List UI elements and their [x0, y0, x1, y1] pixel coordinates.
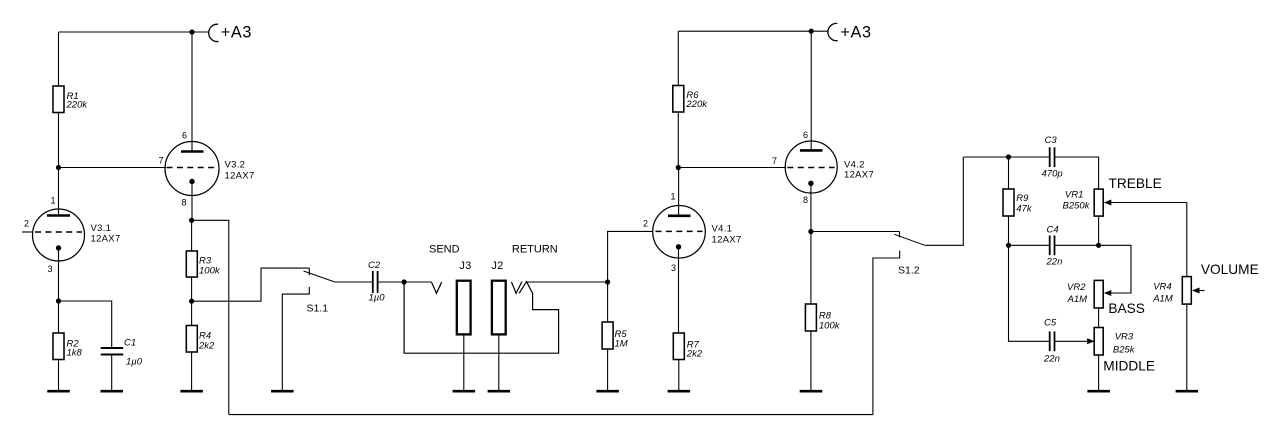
wire RETURN tip to node F — [527, 281, 608, 283]
resistor R8 — [805, 304, 816, 331]
RETURN normalling contact to bypass loop — [404, 282, 558, 354]
svg-text:47k: 47k — [1016, 203, 1033, 214]
wire node F to R5 — [607, 282, 609, 322]
wire VR1 bottom to node L — [1098, 216, 1100, 245]
wire node F to V4.1 grid pin2 — [608, 231, 653, 282]
wire R8 bottom lead — [810, 331, 812, 390]
svg-text:C5: C5 — [1044, 317, 1057, 328]
wire node G to V4.1 plate — [678, 168, 680, 216]
wire C4 to node L — [1055, 244, 1099, 246]
svg-text:J3: J3 — [460, 260, 472, 272]
capacitor C3 — [1042, 135, 1063, 180]
wire C1 bottom lead — [111, 355, 113, 391]
svg-text:6: 6 — [803, 130, 808, 140]
potentiometer VR1 — [1063, 189, 1187, 216]
svg-text:C3: C3 — [1045, 135, 1058, 146]
wire C2 to node E — [378, 281, 405, 283]
wire R6 top lead — [677, 31, 679, 85]
svg-text:B25k: B25k — [1113, 345, 1136, 356]
svg-text:V4.1: V4.1 — [712, 223, 733, 234]
svg-text:J2: J2 — [492, 260, 504, 272]
svg-text:VR4: VR4 — [1153, 281, 1171, 292]
triode V4.1 — [643, 192, 742, 334]
svg-text:VR2: VR2 — [1067, 282, 1086, 293]
svg-text:S1.2: S1.2 — [898, 265, 920, 277]
svg-text:7: 7 — [772, 156, 777, 166]
capacitor C1 — [101, 338, 143, 368]
junction on +A3 rail — [189, 29, 194, 34]
svg-text:VOLUME: VOLUME — [1201, 262, 1259, 277]
wire V3.2 plate lead to +A3 rail — [191, 32, 193, 152]
svg-text:22n: 22n — [1046, 256, 1063, 267]
svg-text:12AX7: 12AX7 — [225, 170, 255, 181]
triode V4.2 — [772, 130, 874, 232]
wire node D to S1.1 top contact — [192, 268, 310, 301]
SECTION: tonestack — [963, 135, 1258, 391]
wire top rail stage1 — [59, 31, 210, 33]
node F junction (RETURN/R5/V4.1 grid) — [605, 279, 610, 284]
wire VR1 wiper to VR4 top — [1186, 203, 1188, 277]
svg-text:B250k: B250k — [1063, 201, 1091, 212]
ground under R8 — [800, 390, 823, 393]
wire R4 bottom lead — [191, 352, 193, 390]
svg-text:8: 8 — [803, 195, 808, 205]
wire V4.2 plate lead to +A3 rail — [810, 31, 812, 150]
svg-text:+A3: +A3 — [840, 24, 871, 42]
svg-text:VR3: VR3 — [1115, 331, 1134, 342]
wire node E to SEND contact — [404, 281, 431, 283]
svg-text:MIDDLE: MIDDLE — [1103, 358, 1155, 373]
potentiometer VR3 — [1094, 328, 1136, 356]
ground under R4 — [180, 390, 203, 393]
SEND tip contact — [431, 282, 441, 293]
ground under R7 — [668, 390, 691, 393]
wire node C to R3 — [191, 220, 193, 251]
wire R6 bottom to node G — [677, 112, 679, 168]
svg-text:100k: 100k — [819, 321, 841, 332]
wire node L to VR2 wiper loop — [1099, 245, 1131, 293]
resistor R7 — [673, 333, 684, 360]
svg-text:2: 2 — [24, 219, 29, 229]
svg-text:VR1: VR1 — [1065, 189, 1083, 200]
svg-text:V3.2: V3.2 — [225, 160, 246, 171]
wire tone stack top rail — [963, 156, 1049, 158]
ground under R5 — [596, 390, 619, 393]
node A junction (R1/V3.1 plate/V3.2 grid) — [56, 165, 61, 170]
capacitor C4 — [1046, 224, 1063, 267]
wire R5 bottom lead — [607, 349, 609, 390]
svg-text:SEND: SEND — [429, 243, 460, 255]
wire bottom bus — [229, 414, 873, 416]
wire node H to R8 — [810, 232, 812, 305]
wire R1 top lead — [58, 32, 60, 86]
resistor R3 — [186, 251, 197, 277]
resistor R5 — [602, 322, 613, 349]
SECTION: stage1 — [22, 24, 309, 415]
node E junction (C2/SEND/bypass) — [402, 279, 407, 284]
potentiometer VR4 — [1152, 277, 1204, 305]
svg-text:6: 6 — [182, 131, 187, 141]
wire J2 sleeve lead — [498, 334, 500, 390]
resistor R4 — [186, 326, 197, 353]
node K junction (R9/C4) — [1006, 243, 1011, 248]
resistor R6 — [673, 86, 684, 113]
node G junction (R6/V4.1 plate/V4.2 grid) — [676, 165, 681, 170]
wire VR2 bottom to VR3 top — [1098, 308, 1100, 328]
svg-text:1: 1 — [51, 196, 56, 206]
node C junction (V3.2 cathode/R3/S1 feed) — [189, 218, 194, 223]
wire C3 to VR1 top — [1055, 157, 1099, 189]
svg-text:C1: C1 — [124, 338, 136, 349]
svg-text:C4: C4 — [1047, 224, 1059, 235]
svg-text:12AX7: 12AX7 — [712, 234, 742, 245]
svg-text:2: 2 — [643, 218, 648, 228]
svg-text:A1M: A1M — [1067, 294, 1088, 305]
svg-text:3: 3 — [671, 263, 676, 273]
svg-text:3: 3 — [48, 264, 53, 274]
wire node G to V4.2 grid pin7 — [678, 167, 786, 169]
wire R2 bottom lead — [58, 360, 60, 391]
svg-text:12AX7: 12AX7 — [844, 169, 874, 180]
svg-text:1k8: 1k8 — [67, 348, 83, 359]
capacitor C2 — [368, 260, 385, 304]
SECTION: middle — [229, 231, 873, 414]
ground under VR3 — [1087, 390, 1110, 393]
wire node K to C4 — [1009, 244, 1050, 246]
svg-text:8: 8 — [182, 198, 187, 208]
ground under C1 — [101, 390, 124, 393]
ground under R2 — [47, 390, 70, 393]
svg-text:100k: 100k — [199, 266, 221, 277]
triode V3.2 — [159, 131, 255, 221]
svg-text:C2: C2 — [368, 260, 381, 271]
wire node C to bottom bus — [192, 220, 229, 414]
svg-text:V3.1: V3.1 — [91, 223, 112, 234]
wire VR3 bottom lead — [1098, 355, 1100, 390]
node D junction (R3/R4/S1.1 feed) — [189, 299, 194, 304]
wire R7 bottom lead — [678, 360, 680, 391]
svg-text:1M: 1M — [615, 339, 628, 350]
svg-text:1µ0: 1µ0 — [369, 293, 386, 304]
ground under J3 — [453, 390, 476, 393]
SECTION: stage2 — [643, 23, 963, 414]
wire S1.1 to C2 — [335, 281, 373, 283]
wire VR4 bottom lead — [1186, 304, 1188, 390]
triode V3.1 — [22, 196, 121, 302]
ground under J2 — [488, 390, 511, 393]
wire R1 bottom to node A — [58, 113, 60, 168]
wire top rail stage2 — [678, 30, 828, 32]
svg-text:2k2: 2k2 — [686, 349, 703, 360]
resistor R2 — [53, 333, 64, 360]
capacitor C5 — [1043, 317, 1060, 364]
switch S1.1 — [282, 268, 335, 390]
wire node A to V3.1 plate — [58, 168, 60, 216]
node J junction (top rail/R9) — [1006, 154, 1011, 159]
ground under VR4 — [1176, 390, 1199, 393]
RETURN tip contact — [512, 282, 523, 294]
resistor R1 — [53, 86, 64, 113]
node +A3 terminal 1 — [209, 24, 219, 41]
svg-text:7: 7 — [159, 156, 164, 166]
wire node H to S1.2 contact — [811, 231, 900, 233]
node B junction (V3.1 cathode/R2/C1) — [56, 298, 61, 303]
wire C5 to VR3 wiper — [1055, 340, 1089, 342]
node +A3 terminal 2 — [828, 23, 838, 40]
wire node B to R2 — [58, 301, 60, 333]
wire node D to R4 — [191, 301, 193, 325]
svg-text:+A3: +A3 — [221, 24, 252, 42]
node H junction (V4.2 cathode/R8/S1.2 feed) — [808, 229, 813, 234]
jack J3 — [457, 260, 472, 334]
wire node K to C5 — [1009, 245, 1050, 341]
svg-text:BASS: BASS — [1108, 301, 1145, 316]
svg-text:1µ0: 1µ0 — [126, 357, 143, 368]
svg-text:RETURN: RETURN — [512, 243, 558, 255]
wire S1.2 to tone stack riser — [925, 157, 963, 245]
svg-text:12AX7: 12AX7 — [91, 234, 121, 245]
svg-text:2k2: 2k2 — [198, 341, 215, 352]
node L junction (VR1/VR2/C4) — [1096, 243, 1101, 248]
wire R9 bottom to node K — [1008, 216, 1010, 245]
wire R3 bottom to node D — [191, 277, 193, 301]
resistor R9 — [1003, 189, 1014, 216]
junction on +A3 rail 2 — [809, 29, 814, 34]
svg-text:220k: 220k — [66, 100, 89, 111]
svg-text:S1.1: S1.1 — [307, 303, 329, 315]
ground under S1.1 — [271, 390, 294, 393]
wire node A to V3.2 grid pin7 — [59, 167, 167, 169]
svg-text:220k: 220k — [685, 99, 708, 110]
wire J3 sleeve lead — [463, 334, 465, 390]
jack J2 — [492, 260, 506, 334]
svg-text:1: 1 — [671, 192, 676, 202]
svg-text:22n: 22n — [1043, 354, 1060, 365]
wire node B to C1 — [59, 301, 112, 348]
svg-text:A1M: A1M — [1152, 294, 1173, 305]
svg-text:470p: 470p — [1042, 169, 1063, 180]
wire node J to R9 — [1008, 157, 1010, 189]
potentiometer VR2 — [1067, 280, 1112, 308]
switch S1.2 — [873, 232, 925, 415]
svg-text:TREBLE: TREBLE — [1109, 176, 1162, 191]
